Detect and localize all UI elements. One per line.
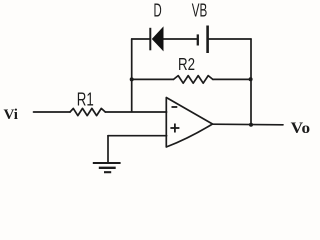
ground: [93, 163, 121, 172]
wire diode to battery: [164, 38, 197, 40]
battery VB (short negative plate): [197, 34, 199, 45]
junction node R2 left: [130, 77, 134, 81]
wire R1 to inverting input: [105, 111, 166, 113]
diode D (cathode bar): [149, 28, 151, 51]
wire right vertical (top corner down to output node): [250, 39, 252, 125]
resistor R1 zigzag: [70, 108, 105, 115]
op-amp U1: [166, 98, 212, 148]
svg-text:Vi: Vi: [4, 107, 19, 123]
svg-text:VB: VB: [192, 1, 208, 21]
junction node output: [249, 123, 253, 127]
wire left vertical (feedback node to inverting input): [131, 39, 133, 112]
wire output (op-amp apex to Vo): [213, 123, 284, 126]
svg-text:R1: R1: [77, 89, 94, 109]
wire non-inverting input horizontal: [108, 135, 167, 137]
op-amp minus sign: [172, 106, 178, 108]
junction node R2 right: [249, 77, 253, 81]
wire ground vertical stem: [107, 136, 109, 163]
diode D (triangle): [152, 26, 164, 51]
wire R2 left segment: [132, 78, 174, 80]
resistor R2 zigzag: [174, 76, 213, 84]
op-amp plus sign: [170, 124, 179, 133]
wire top-left segment (left vertical to diode): [132, 38, 150, 40]
battery VB (long positive plate): [206, 26, 209, 54]
wire Vi input segment: [34, 111, 71, 113]
svg-text:Vo: Vo: [291, 120, 311, 137]
wire R2 right segment: [213, 78, 251, 80]
svg-text:R2: R2: [178, 54, 195, 74]
wire battery to top-right corner: [209, 38, 251, 40]
svg-text:D: D: [154, 1, 162, 21]
